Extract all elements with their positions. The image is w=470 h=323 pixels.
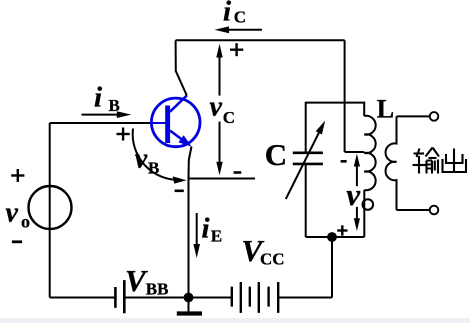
voltage arc vB (133, 129, 187, 184)
label vB (135, 143, 160, 177)
svg-text:i: i (223, 0, 231, 27)
label VCC (242, 233, 285, 268)
wire: secondary bottom to terminal (397, 209, 430, 211)
source vo circle (29, 186, 72, 229)
wire: tank top (306, 103, 365, 237)
inductor L primary coil (363, 116, 376, 237)
minus sign (vB bottom) (175, 190, 184, 193)
wire: left vertical (49, 123, 51, 298)
inductor secondary coil (386, 116, 397, 210)
wire: tank bottom (306, 236, 365, 238)
battery VBB short plate (114, 287, 117, 308)
label output (Chinese 输出) (413, 148, 467, 174)
wire: riser up to tank (331, 237, 333, 298)
svg-text:CC: CC (260, 249, 285, 268)
output terminal (top) (430, 112, 439, 121)
label iE (202, 213, 223, 246)
plus sign (vB top) (117, 128, 130, 141)
transistor emitter lead with arrow (blue) (170, 131, 192, 147)
current arrow iE (193, 213, 200, 258)
svg-text:C: C (234, 7, 246, 26)
wire: emitter down to junction (189, 147, 192, 298)
battery VBB tall plate (123, 280, 126, 313)
svg-text:B: B (109, 96, 120, 115)
current arrow iB (82, 111, 132, 118)
current arrow iC (215, 26, 263, 33)
label L (377, 94, 394, 123)
svg-text:v: v (6, 197, 19, 228)
svg-text:E: E (211, 226, 222, 245)
wire: collector drop to coil tap (344, 40, 346, 152)
label iB (94, 81, 120, 115)
svg-text:i: i (202, 213, 210, 245)
junction dot (tank bottom) (327, 232, 337, 242)
label C (265, 137, 287, 172)
label iC (223, 0, 246, 27)
minus sign (v top) (341, 160, 347, 163)
label VBB (125, 263, 168, 299)
junction dot (emitter/ground) (184, 293, 194, 303)
wire: bottom wire VBB to VCC (124, 297, 231, 299)
battery VCC plates (232, 282, 278, 313)
voltage arrow vC (double headed) (216, 44, 222, 176)
svg-text:C: C (223, 108, 235, 127)
wire: base wire (50, 122, 152, 124)
minus sign (vo) (12, 240, 22, 243)
capacitor C plates (variable) (286, 121, 325, 200)
wire: emitter node horizontal line (189, 178, 256, 180)
wire: top collector wire (176, 39, 345, 41)
voltage arrow v (double headed) (354, 154, 360, 231)
wire: base lead inside circle (152, 122, 166, 124)
ground (177, 298, 202, 314)
svg-text:C: C (265, 137, 287, 172)
plus sign (vC top) (230, 43, 243, 56)
svg-text:B: B (148, 159, 159, 178)
plus sign (v bottom) (337, 225, 347, 235)
svg-text:i: i (94, 81, 102, 113)
transistor collector lead (blue diagonal) (170, 96, 187, 112)
transistor (NPN) circle (151, 98, 200, 147)
svg-text:BB: BB (146, 280, 169, 299)
plus sign (vo) (11, 169, 24, 182)
wire: tap line into coil (345, 151, 365, 153)
transistor base bar (165, 106, 170, 144)
minus sign (vC bottom) (234, 171, 242, 174)
light bottom band (0, 318, 470, 323)
svg-text:L: L (377, 94, 394, 123)
svg-text:v: v (346, 177, 361, 212)
wire: secondary top to terminal (397, 115, 430, 117)
svg-text:V: V (125, 263, 148, 298)
wire: bottom wire VCC to riser (278, 297, 332, 299)
wire: bottom left wire (50, 297, 115, 299)
wire: collector lead to top wire (176, 40, 187, 95)
svg-text:o: o (21, 212, 30, 232)
label vo (6, 197, 31, 231)
label vC (210, 91, 236, 127)
svg-text:v: v (135, 143, 148, 174)
label v (346, 177, 361, 212)
output terminal (bottom) (430, 206, 439, 215)
svg-text:v: v (210, 91, 223, 122)
